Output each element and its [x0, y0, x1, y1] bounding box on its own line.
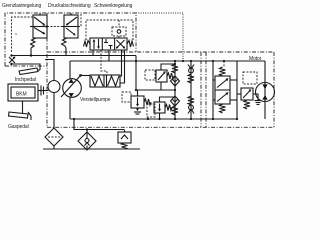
wire y90 [136, 89, 175, 91]
wire branch x136 [135, 56, 137, 91]
wire drain to tank line [74, 119, 124, 130]
flushing valve [237, 88, 253, 100]
svg-text:Verstellpumpe: Verstellpumpe [80, 97, 111, 103]
filter suction [45, 128, 63, 146]
valve A flow regulator [131, 90, 144, 108]
filter return with bypass [78, 132, 96, 150]
charge relief valve [118, 130, 131, 144]
svg-text:Grenzlastregelung: Grenzlastregelung [2, 3, 41, 9]
main pump circle [61, 74, 82, 97]
engine BKM box [8, 84, 38, 101]
spring V3 left [84, 41, 91, 48]
spring DR [167, 73, 174, 79]
svg-text:Schwenkregelung: Schwenkregelung [94, 3, 133, 9]
spring valve B [165, 105, 172, 111]
valve B pressure cutoff [154, 97, 175, 119]
valve V2 Druckabschneidung [62, 13, 78, 38]
valve V1 Grenzlastregelung [30, 13, 47, 38]
svg-text:Gaspedal: Gaspedal [8, 124, 29, 130]
orifice dashed box [112, 27, 126, 36]
potentiometer [9, 57, 16, 64]
node main line dots [212, 60, 214, 62]
motor valve [213, 76, 237, 104]
wire inch link lower [12, 64, 41, 70]
wire motor box right [236, 61, 238, 119]
motor circle [256, 83, 275, 102]
wire return line [70, 118, 237, 120]
svg-text:Inchpedal: Inchpedal [15, 77, 36, 83]
spring V2 [62, 38, 68, 48]
svg-text:Druckabschneidung: Druckabschneidung [48, 3, 91, 9]
wire pump top [69, 61, 71, 79]
spring flushing valve [244, 100, 250, 109]
node pot2 [10, 63, 12, 65]
pilot box DR [145, 70, 155, 80]
spring V1 [31, 38, 37, 48]
wire filter top [86, 130, 88, 133]
drain valve A [134, 108, 141, 114]
wire V3 P stub [108, 50, 110, 61]
link swash to cylinder [81, 75, 91, 77]
tank flushing [253, 94, 262, 105]
pilot dashed valve B [147, 104, 155, 117]
valve DR pressure regulator [156, 70, 167, 90]
wire tank line [43, 148, 140, 150]
pilot dashed V1-V2 [47, 26, 64, 28]
wire BKM to gas pedal [22, 101, 24, 113]
wire charge suction top [45, 60, 54, 81]
spring valve A [144, 99, 151, 105]
pilot dashed to cylinder [101, 50, 107, 75]
controller dashed box [12, 17, 34, 53]
wire V1 drain [30, 48, 32, 56]
wire pump bottom [69, 97, 71, 119]
spring V3 right [127, 41, 134, 48]
wire secondary line [161, 64, 175, 70]
pilot dashed motor valve [223, 61, 225, 67]
wire motor top [264, 61, 266, 83]
svg-text:Motor: Motor [249, 56, 262, 62]
charge pump circle [48, 81, 60, 93]
inch pedal [19, 68, 40, 75]
svg-text:BKM: BKM [16, 92, 27, 98]
wire inch link upper [12, 55, 137, 57]
stroking cylinder [90, 75, 120, 87]
spring motor valve bottom [220, 104, 226, 113]
pilot box flushing [243, 72, 257, 84]
frame vehicle boundary [5, 13, 274, 127]
wire suction [53, 93, 55, 129]
relief valve upper x175 [171, 61, 180, 90]
pilot box valve A [122, 92, 131, 102]
wire cylinder to V3 A [120, 50, 122, 76]
wire V3 T stub [92, 50, 94, 56]
valve V3 Schwenkregelung body [90, 38, 127, 50]
pilot dashed V2 right [78, 14, 81, 27]
wire cylinder to V3 B [120, 50, 125, 83]
svg-text:u: u [15, 31, 17, 36]
check valve branch x191 [188, 61, 194, 119]
wire HP main line [70, 60, 265, 62]
wire motor left branch [212, 61, 214, 119]
shaft BKM-pump [38, 86, 49, 96]
wire motor bottom [264, 101, 266, 119]
spring motor valve top [220, 67, 226, 76]
relief valve lower x175 [171, 90, 180, 119]
pilot dashed V3 [86, 20, 133, 40]
spring charge relief [122, 143, 128, 149]
wire V2 drain [65, 48, 67, 56]
pilot line dotted top [136, 13, 183, 61]
node pot1 [10, 54, 12, 56]
gas pedal [9, 112, 32, 120]
